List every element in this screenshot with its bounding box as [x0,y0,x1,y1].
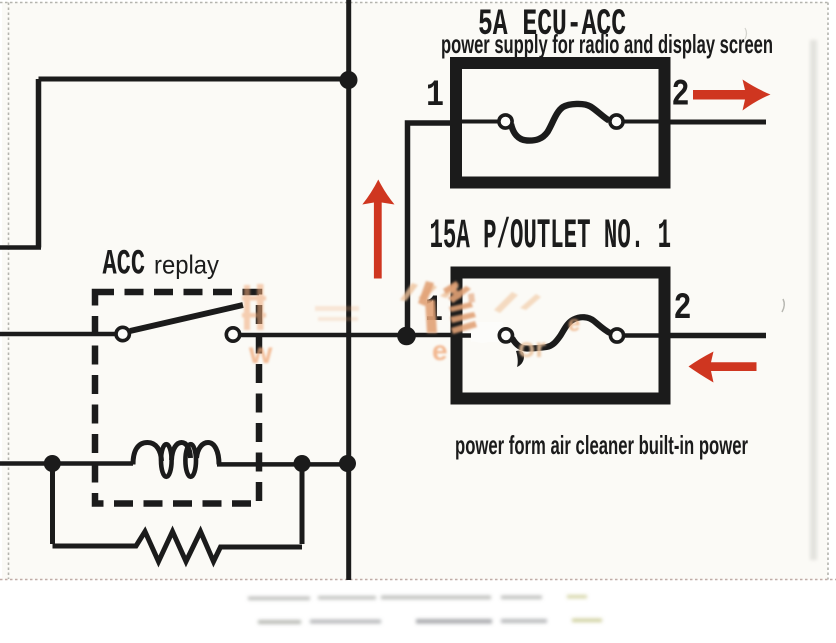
svg-text:power form air cleaner built-i: power form air cleaner built-in power [455,430,748,460]
svg-text:e: e [432,335,448,366]
svg-text:1: 1 [426,75,444,117]
svg-text:ACC: ACC [103,243,146,284]
svg-text:2: 2 [672,75,690,117]
svg-text:15A P/OUTLET NO. 1: 15A P/OUTLET NO. 1 [430,213,672,260]
svg-text:replay: replay [154,250,219,280]
svg-text:e: e [568,311,580,336]
svg-text:power supply for radio and dis: power supply for radio and display scree… [441,29,773,59]
svg-text:w: w [248,337,273,370]
svg-text:or: or [518,332,546,363]
svg-text:2: 2 [674,288,692,330]
